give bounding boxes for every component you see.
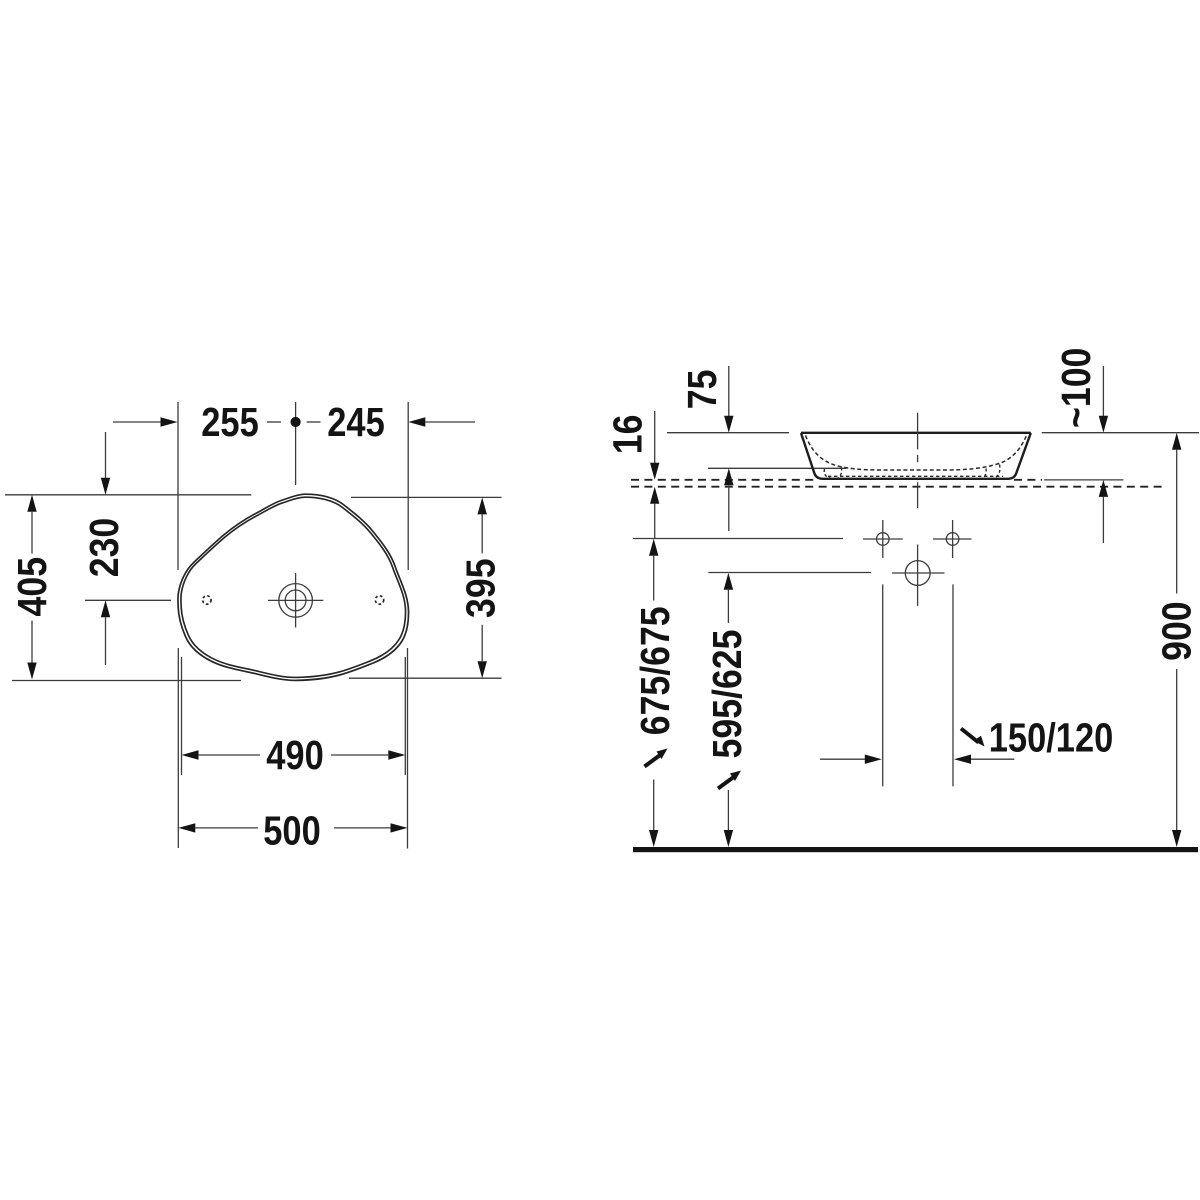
dim 490 left arrow (182, 750, 199, 759)
dim 150/120 left outside arrow (820, 758, 866, 760)
dim 595/625 bottom arrow (727, 790, 729, 830)
left center mark (dashed circle) (203, 596, 211, 604)
dim 16 upper arrow (654, 411, 656, 463)
dim 675/675 bottom arrow (653, 780, 655, 831)
basin profile walls and bottom (801, 433, 1031, 479)
dim ~100 lower arrow (1099, 480, 1108, 497)
basin profile rim (801, 432, 1031, 434)
dim 405 top arrow (27, 495, 36, 512)
extension line 490 left (181, 657, 183, 775)
left fixing hole (877, 533, 890, 546)
svg-text:245: 245 (327, 400, 384, 445)
basin bowl bottom dashed line (828, 475, 1003, 477)
floor line (633, 847, 1198, 852)
dim 900 top arrow (1172, 433, 1181, 450)
dim 75 upper arrow (728, 366, 730, 416)
75 level line (708, 467, 847, 469)
svg-text:675/675: 675/675 (633, 606, 679, 735)
drain crosshair vertical (295, 573, 297, 628)
extension line left x=178 upper (177, 402, 179, 570)
dim 230 lower outside arrow (101, 600, 110, 617)
dim 490 right arrow (331, 754, 388, 756)
dim 395 top arrow (478, 497, 487, 514)
595 level extension line (708, 572, 871, 574)
dim 230 upper outside arrow (105, 432, 107, 478)
dim ~100 upper arrow (1102, 366, 1104, 416)
dim 16 lower arrow (650, 487, 659, 504)
svg-text:595/625: 595/625 (705, 630, 751, 759)
basin inner bowl dashed curve (806, 436, 1027, 471)
svg-text:395: 395 (458, 558, 504, 617)
side view centerline (917, 413, 919, 450)
dim 500 right arrow (334, 827, 391, 829)
svg-text:16: 16 (605, 415, 651, 455)
dim 405 bottom arrow (31, 621, 33, 663)
rim top reference line right segment (1042, 432, 1199, 434)
dim 500 left arrow (178, 823, 195, 832)
drain crosshair horizontal (268, 599, 323, 601)
dim 675/675 top arrow (649, 539, 658, 556)
dim line segment 245 (307, 421, 321, 423)
tap hole (large) (905, 561, 930, 586)
150/120 extension line left (882, 584, 884, 786)
right fixing hole (946, 533, 959, 546)
extension line left x=178 lower (500) (177, 648, 179, 848)
dim 255/245 left outside arrow (113, 421, 161, 423)
dim 395 bottom arrow (481, 625, 483, 661)
svg-text:230: 230 (82, 518, 128, 577)
extension line right x=408 lower (500) (407, 648, 409, 849)
dim 150/120 right outside arrow (954, 755, 971, 764)
svg-text:~100: ~100 (1054, 348, 1100, 428)
top extension line right (395 datum) (351, 496, 502, 498)
bowl drain recess dashed right (983, 465, 1000, 478)
top extension line (405 datum) (5, 494, 251, 496)
svg-text:900: 900 (1154, 601, 1200, 660)
bowl drain recess dashed left (824, 468, 841, 478)
dim 75 lower arrow (724, 468, 733, 485)
extension line 490 right (404, 657, 406, 775)
svg-text:75: 75 (680, 370, 726, 410)
extension line right x=408 upper (407, 402, 409, 570)
dim dot 255/245 (291, 417, 301, 427)
dim 595/625 top arrow (724, 573, 733, 590)
dim 900 bottom arrow (1176, 669, 1178, 830)
230 level line (85, 599, 171, 601)
variant arrow 675 (657, 749, 668, 760)
variant arrow 625 (730, 771, 741, 782)
drain hole outer circle (279, 584, 313, 618)
variant arrow 150/120 (974, 736, 985, 747)
countertop bottom dashed line (631, 486, 1162, 488)
svg-text:490: 490 (266, 733, 323, 778)
basin outer outline (178, 494, 409, 680)
svg-text:255: 255 (201, 400, 258, 445)
~100 level solid segment (1044, 479, 1124, 481)
bottom extension line left (12, 680, 241, 682)
drain hole inner circle (285, 590, 306, 611)
plan centerline (295, 402, 297, 485)
dim 255/245 right outside arrow (408, 417, 425, 426)
675 level extension line (633, 538, 843, 540)
svg-text:500: 500 (263, 809, 320, 854)
bottom extension line right (349, 677, 502, 679)
dim line segment 255 (267, 421, 281, 423)
rim top reference line left segment (667, 432, 789, 434)
150/120 extension line right (952, 584, 954, 786)
basin inner rim outline (181, 497, 406, 677)
svg-text:150/120: 150/120 (989, 716, 1113, 761)
right center mark (dashed circle) (375, 596, 383, 604)
countertop top dashed line (631, 479, 814, 481)
svg-text:405: 405 (10, 557, 56, 616)
